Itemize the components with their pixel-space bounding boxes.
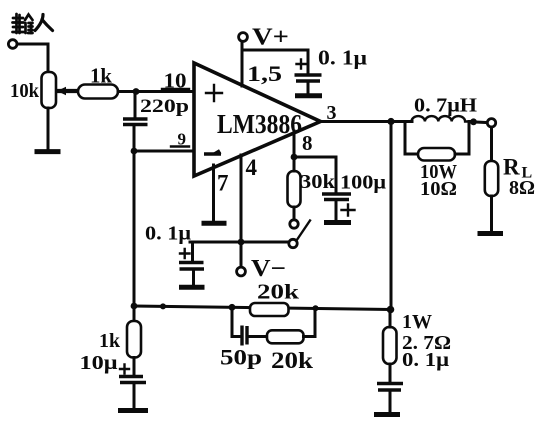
svg-text:8Ω: 8Ω (509, 177, 535, 199)
svg-text:20k: 20k (257, 280, 299, 304)
svg-text:100μ: 100μ (340, 172, 387, 194)
svg-text:R: R (503, 155, 520, 180)
svg-text:0. 1μ: 0. 1μ (145, 223, 192, 245)
svg-text:V−: V− (251, 256, 286, 282)
svg-text:10μ: 10μ (80, 352, 119, 374)
svg-text:50p: 50p (220, 345, 262, 370)
svg-text:30k: 30k (300, 171, 336, 193)
svg-text:1k: 1k (90, 64, 112, 88)
svg-text:10Ω: 10Ω (420, 178, 457, 200)
svg-text:0. 7μH: 0. 7μH (414, 95, 477, 117)
svg-text:0. 1μ: 0. 1μ (318, 46, 367, 70)
svg-text:V+: V+ (252, 25, 289, 51)
svg-text:220p: 220p (140, 96, 189, 117)
svg-text:20k: 20k (271, 348, 313, 373)
svg-text:1,5: 1,5 (247, 61, 282, 86)
svg-text:0. 1μ: 0. 1μ (402, 349, 450, 371)
svg-text:8: 8 (302, 131, 313, 155)
svg-text:1W: 1W (402, 311, 432, 333)
svg-text:4: 4 (246, 155, 258, 180)
svg-text:7: 7 (217, 171, 229, 196)
svg-text:10k: 10k (10, 80, 40, 102)
svg-text:1k: 1k (99, 330, 121, 352)
svg-text:LM3886: LM3886 (217, 109, 302, 139)
